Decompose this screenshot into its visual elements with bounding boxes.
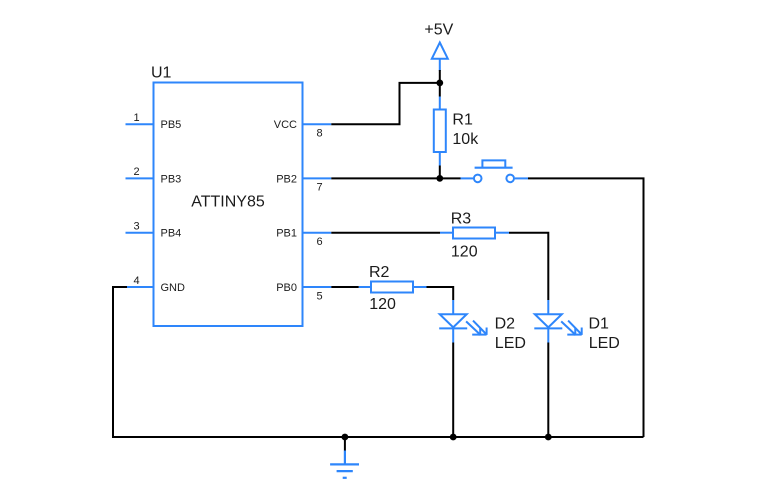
junction dot +5V / VCC	[436, 80, 443, 87]
svg-text:8: 8	[316, 128, 322, 140]
ground symbol	[330, 451, 359, 478]
svg-text:PB4: PB4	[161, 228, 182, 240]
svg-text:5: 5	[316, 290, 322, 302]
wire GND pin4 down and bottom rail	[113, 287, 644, 437]
wire R3 to LED D1	[509, 233, 548, 300]
svg-text:PB1: PB1	[276, 228, 297, 240]
wire PB1 pin6 to R3	[331, 232, 440, 234]
wire ground stub	[344, 437, 346, 451]
svg-text:PB2: PB2	[276, 173, 297, 185]
pin 7 PB2	[276, 173, 331, 193]
svg-text:R1: R1	[452, 112, 473, 129]
svg-text:PB0: PB0	[276, 282, 297, 294]
svg-text:10k: 10k	[452, 131, 479, 148]
svg-text:120: 120	[369, 296, 396, 313]
resistor R1	[434, 97, 479, 166]
wire PB2 pin7 to button	[331, 177, 460, 179]
wire R1 to PB2 node	[439, 166, 441, 179]
wire PB0 pin5 to R2	[331, 286, 359, 288]
junction dot D2 / bottom rail	[450, 434, 457, 441]
pin 3 PB4	[126, 221, 182, 240]
junction dot ground	[342, 434, 349, 441]
power +5V symbol	[424, 22, 453, 72]
wire R2 to LED D2	[427, 287, 454, 300]
junction dot D1 / bottom rail	[545, 434, 552, 441]
svg-text:PB3: PB3	[161, 173, 182, 185]
svg-text:ATTINY85: ATTINY85	[191, 194, 265, 211]
svg-text:1: 1	[133, 112, 139, 124]
svg-text:3: 3	[133, 221, 139, 233]
wire LED D1 to bottom rail	[547, 343, 549, 438]
svg-text:D2: D2	[495, 316, 516, 333]
svg-text:7: 7	[316, 182, 322, 194]
svg-text:R2: R2	[369, 264, 390, 281]
LED D1	[534, 300, 620, 352]
pin 6 PB1	[276, 228, 331, 248]
svg-text:R3: R3	[451, 211, 472, 228]
wire button to right rail, down to bottom rail	[528, 178, 644, 437]
junction dot PB2 / R1	[436, 175, 443, 182]
svg-text:4: 4	[133, 275, 139, 287]
pin 1 PB5	[126, 112, 182, 131]
wire +5V down to R1	[439, 70, 441, 97]
resistor R2	[359, 264, 427, 313]
pin 4 GND	[126, 275, 186, 294]
svg-text:U1: U1	[151, 65, 172, 82]
pin 8 VCC	[274, 119, 332, 139]
svg-text:2: 2	[133, 166, 139, 178]
svg-text:6: 6	[316, 236, 322, 248]
wire LED D2 to bottom rail	[452, 343, 454, 438]
svg-text:PB5: PB5	[161, 119, 182, 131]
svg-text:D1: D1	[589, 316, 610, 333]
svg-text:VCC: VCC	[274, 119, 297, 131]
wire VCC pin8 to +5V rail	[331, 83, 441, 124]
svg-text:GND: GND	[161, 282, 186, 294]
LED D2	[439, 300, 526, 352]
pin 2 PB3	[126, 166, 182, 185]
svg-text:+5V: +5V	[424, 22, 453, 39]
svg-text:LED: LED	[589, 335, 620, 352]
pin 5 PB0	[276, 282, 331, 302]
IC U1 body	[154, 83, 303, 327]
svg-text:120: 120	[451, 244, 478, 261]
resistor R3	[440, 211, 509, 261]
pushbutton S1	[461, 160, 529, 182]
svg-text:LED: LED	[495, 335, 526, 352]
